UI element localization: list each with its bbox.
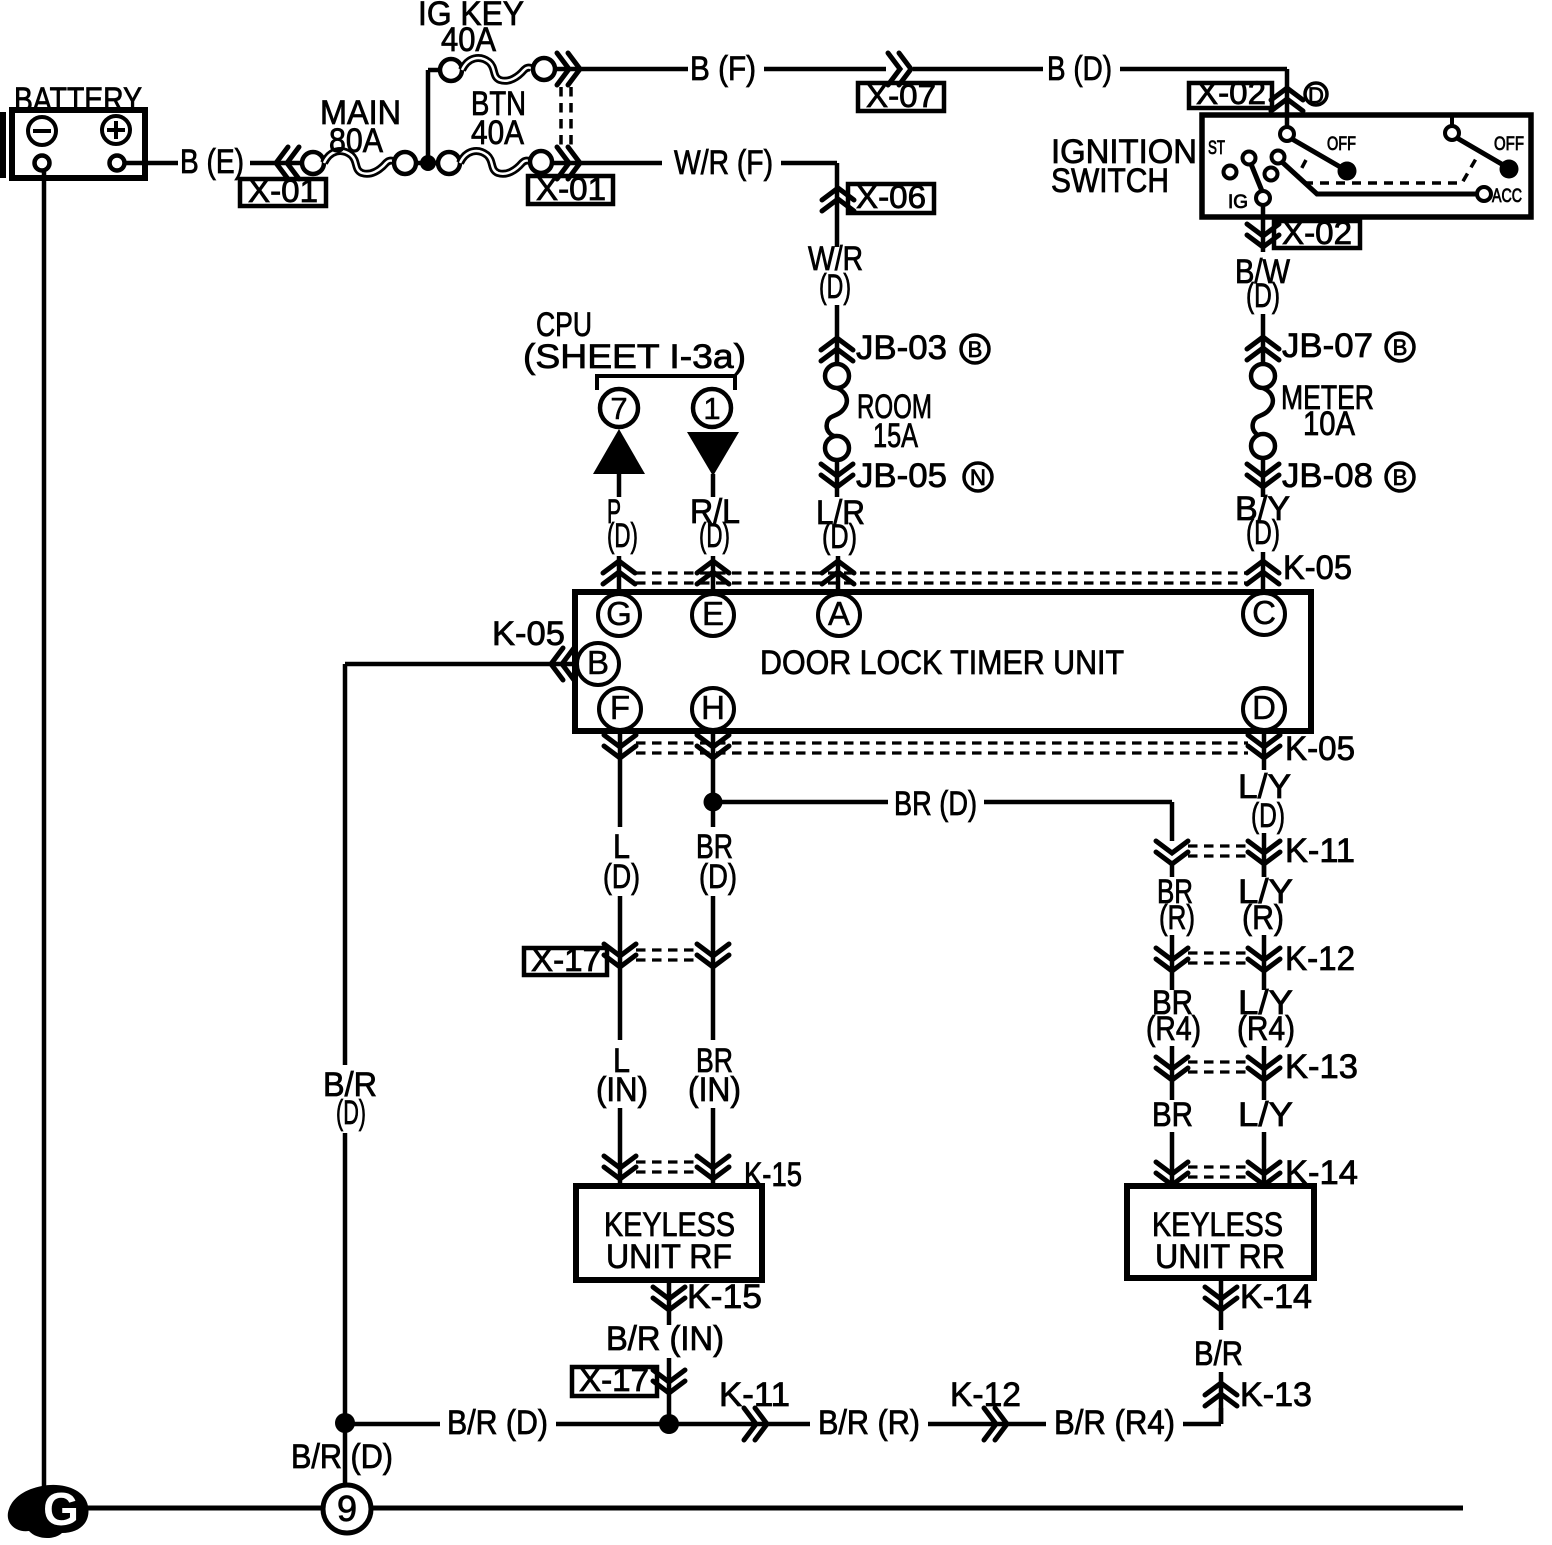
terminal D circled top xyxy=(1305,83,1327,105)
connector X-01 label box left xyxy=(240,179,326,206)
wire B/R(R4) to corner xyxy=(1183,1422,1221,1427)
svg-text:JB-03: JB-03 xyxy=(856,329,947,367)
ignition switch OFF contact left xyxy=(1338,162,1357,181)
fuse BTN 40A xyxy=(438,152,460,174)
ignition switch ACC contact b xyxy=(1265,168,1278,181)
svg-text:(D): (D) xyxy=(1246,514,1280,552)
svg-text:80A: 80A xyxy=(329,122,383,160)
connector K-05 chevron at B xyxy=(551,648,574,680)
ground G symbol xyxy=(8,1485,89,1538)
svg-text:X-02: X-02 xyxy=(1282,215,1352,251)
connector K-11 dashed link xyxy=(1188,844,1248,847)
wire L/Y(D) to K-11 xyxy=(1262,833,1267,877)
svg-text:(IN): (IN) xyxy=(596,1071,648,1109)
wire P(D) to terminal G xyxy=(617,556,622,594)
junction main/btn/igkey xyxy=(420,155,436,171)
ignition switch SW1 box xyxy=(1202,115,1531,217)
wire BR(D) branch right 2 xyxy=(984,800,1172,805)
wire BR(R4) xyxy=(1170,1046,1175,1100)
svg-text:DOOR LOCK TIMER UNIT: DOOR LOCK TIMER UNIT xyxy=(760,644,1124,682)
wire BR(R) xyxy=(1170,864,1175,877)
wire battery negative to ground xyxy=(42,170,47,1492)
wire B/R(IN) to X-17 xyxy=(667,1358,672,1424)
svg-text:SWITCH: SWITCH xyxy=(1051,162,1169,200)
connector K-14 chevron bottom xyxy=(1205,1287,1237,1310)
fuse METER 10A xyxy=(1251,364,1275,388)
svg-text:K-12: K-12 xyxy=(950,1376,1021,1414)
connector X-06 chevron xyxy=(822,188,854,211)
wire B/R(D) bottom left xyxy=(345,1422,440,1427)
connector X-17 label box xyxy=(524,948,607,975)
fuse IG KEY 40A xyxy=(440,59,462,81)
node 9 circle xyxy=(323,1485,371,1533)
wire IG KEY fuse to B(F) xyxy=(555,67,688,72)
junction X-17/K-11 xyxy=(659,1414,679,1434)
svg-text:X-07: X-07 xyxy=(866,78,936,114)
keyless unit RR box xyxy=(1127,1186,1314,1278)
connector K-05 chevron at C xyxy=(1247,561,1279,584)
svg-text:(R): (R) xyxy=(1242,899,1284,937)
connector K-11 chevron horizontal xyxy=(744,1408,767,1440)
ground rail xyxy=(60,1506,1463,1511)
terminal E xyxy=(692,594,734,636)
svg-text:ACC: ACC xyxy=(1492,186,1522,207)
wire B/W to JB-07 xyxy=(1261,314,1266,365)
svg-text:N: N xyxy=(970,465,986,490)
svg-text:B: B xyxy=(1393,465,1408,490)
wire terminal B to left rail xyxy=(345,662,577,667)
svg-text:B/R (R): B/R (R) xyxy=(818,1404,920,1442)
terminal B circled jb03 xyxy=(961,335,989,363)
connector K-13 chevron right wire xyxy=(1248,1057,1280,1080)
svg-text:40A: 40A xyxy=(471,114,524,152)
wire BR(D) to X-17 xyxy=(711,896,716,1040)
connector K-15 dashed link xyxy=(636,1160,700,1163)
wire B(F) to X-07 xyxy=(764,67,886,72)
svg-text:B/R (IN): B/R (IN) xyxy=(606,1320,724,1358)
svg-text:BR: BR xyxy=(1152,1096,1193,1134)
wire junction up to IG KEY fuse xyxy=(426,70,431,163)
svg-text:BATTERY: BATTERY xyxy=(14,81,142,119)
connector K-14 chevron left wire xyxy=(1156,1162,1188,1185)
connector JB-08 chevron xyxy=(1247,464,1279,487)
battery B1 xyxy=(12,110,145,178)
wire LY(R4) xyxy=(1262,1046,1267,1100)
svg-text:(D): (D) xyxy=(699,517,730,555)
svg-text:X-06: X-06 xyxy=(856,179,926,215)
wire ROOM to JB-05 xyxy=(835,460,840,497)
ignition switch dashed positions xyxy=(1297,157,1477,183)
connector K-15 chevron bottom xyxy=(653,1287,685,1310)
connector JB-07 chevron xyxy=(1247,337,1279,360)
svg-text:10A: 10A xyxy=(1303,405,1355,443)
connector X-02 chevron bottom xyxy=(1247,224,1279,247)
svg-text:B/R (D): B/R (D) xyxy=(291,1438,393,1476)
terminal B circled jb07 xyxy=(1386,333,1414,361)
scan edge artifact xyxy=(0,112,6,178)
wire BR(D) branch right xyxy=(722,800,888,805)
connector K-05 dashed link bottom xyxy=(636,741,1248,744)
svg-text:B (E): B (E) xyxy=(180,143,244,181)
svg-text:K-12: K-12 xyxy=(1285,940,1355,978)
svg-text:JB-05: JB-05 xyxy=(856,457,947,495)
svg-text:9: 9 xyxy=(337,1488,357,1529)
connector K-13 chevron left wire xyxy=(1156,1057,1188,1080)
connector X-01 dashed link xyxy=(559,87,563,148)
fuse MAIN 80A xyxy=(302,152,324,174)
wire pin1 to R/L(D) xyxy=(711,474,716,497)
ignition switch right stub xyxy=(1450,115,1454,127)
wire W/R(D) to JB-03 xyxy=(835,305,840,365)
connector X-01 chevron top right xyxy=(557,53,580,85)
wire RR down xyxy=(1219,1278,1224,1330)
connector K-14 chevron right wire xyxy=(1248,1162,1280,1185)
keyless unit RF box xyxy=(576,1186,762,1280)
svg-text:OFF: OFF xyxy=(1494,134,1524,155)
svg-text:L/Y: L/Y xyxy=(1238,1096,1293,1134)
svg-text:(D): (D) xyxy=(819,268,851,306)
svg-text:X-17: X-17 xyxy=(531,942,601,978)
connector K-12 chevron right wire xyxy=(1248,948,1280,971)
battery negative post xyxy=(35,156,50,171)
ignition switch arm right xyxy=(1457,138,1505,166)
svg-text:C: C xyxy=(1252,594,1276,631)
svg-text:(IN): (IN) xyxy=(688,1071,741,1109)
wire H down to junction xyxy=(711,731,716,802)
arrow down from CPU pin 1 xyxy=(687,432,739,476)
wire B/Y to terminal C xyxy=(1261,552,1266,594)
svg-text:(SHEET I-3a): (SHEET I-3a) xyxy=(523,338,746,376)
svg-text:K-05: K-05 xyxy=(1285,730,1355,768)
connector K-05 chevron at A xyxy=(822,561,854,584)
svg-text:(D): (D) xyxy=(603,858,640,896)
connector K-14 dashed link xyxy=(1188,1165,1248,1168)
wire junction down to node 9 xyxy=(343,1423,348,1487)
battery positive post xyxy=(110,156,125,171)
svg-text:A: A xyxy=(828,595,850,632)
connector X-02 label box bottom xyxy=(1274,221,1360,248)
wire B/R(R) to K-12 xyxy=(928,1422,1046,1427)
connector K-12 chevron horizontal xyxy=(984,1408,1007,1440)
ignition switch OFF contact right xyxy=(1500,160,1519,179)
svg-text:B (D): B (D) xyxy=(1047,50,1112,88)
wire pin7 to P(D) xyxy=(617,474,622,497)
arrow up to CPU pin 7 xyxy=(593,429,645,474)
terminal A xyxy=(818,594,860,636)
svg-text:X-01: X-01 xyxy=(248,173,318,209)
svg-text:G: G xyxy=(43,1483,79,1535)
svg-text:(R): (R) xyxy=(1159,899,1195,937)
wire B/R to K-13 xyxy=(1219,1372,1224,1424)
wire left rail B/R(D) upper xyxy=(343,664,348,1065)
svg-text:D: D xyxy=(1308,83,1324,108)
wire L(IN) to K-15 xyxy=(618,1108,623,1188)
connector K-05 chevron at F xyxy=(604,735,636,758)
wire B(D) to ignition switch xyxy=(1120,67,1287,72)
ignition switch ST contact a xyxy=(1243,152,1256,165)
svg-text:K-11: K-11 xyxy=(1285,832,1355,870)
svg-text:15A: 15A xyxy=(873,417,918,455)
terminal C xyxy=(1243,593,1285,635)
connector X-17 chevron bottom xyxy=(653,1370,685,1393)
wire MAIN to junction xyxy=(416,161,438,166)
svg-text:(D): (D) xyxy=(1246,277,1280,315)
connector X-01 label box right xyxy=(528,176,613,204)
terminal N circled jb05 xyxy=(964,463,992,491)
svg-text:(D): (D) xyxy=(1251,797,1285,835)
terminal G xyxy=(598,594,640,636)
svg-text:W/R (F): W/R (F) xyxy=(674,144,773,182)
connector X-17 chevron left xyxy=(604,944,636,967)
svg-text:UNIT RR: UNIT RR xyxy=(1155,1238,1285,1276)
connector X-07 label box xyxy=(858,83,944,111)
connector K-15 chevron left xyxy=(604,1156,636,1179)
connector X-01 chevron bottom right xyxy=(557,147,580,179)
svg-text:X-02: X-02 xyxy=(1196,75,1266,111)
wire BR(IN) to K-15 xyxy=(711,1108,716,1188)
wire B(E) to MAIN fuse xyxy=(250,161,304,166)
wire B/R(D) to junction xyxy=(556,1422,810,1427)
svg-text:B/R (D): B/R (D) xyxy=(447,1404,548,1442)
svg-text:(D): (D) xyxy=(607,517,638,555)
svg-text:ST: ST xyxy=(1208,138,1225,159)
wire left rail B/R(D) lower xyxy=(343,1133,348,1423)
connector X-17 chevron right xyxy=(697,944,729,967)
svg-text:(R4): (R4) xyxy=(1146,1010,1201,1048)
svg-text:K-14: K-14 xyxy=(1240,1278,1312,1316)
connector K-05 chevron at E xyxy=(697,561,729,584)
svg-text:UNIT RF: UNIT RF xyxy=(606,1238,732,1276)
connector JB-03 chevron xyxy=(821,338,853,361)
svg-text:(D): (D) xyxy=(699,858,737,896)
svg-text:D: D xyxy=(1252,689,1276,726)
terminal B xyxy=(577,643,619,685)
wire RF down xyxy=(667,1280,672,1325)
connector K-13 dashed link xyxy=(1188,1060,1248,1063)
wire X-07 to B(D) xyxy=(913,67,1043,72)
ignition switch ACC line xyxy=(1282,162,1477,194)
junction BR(D) xyxy=(704,793,723,812)
ignition switch ACC terminal xyxy=(1477,187,1491,201)
svg-text:F: F xyxy=(610,689,630,726)
svg-text:K-05: K-05 xyxy=(492,615,565,653)
svg-text:K-05: K-05 xyxy=(1283,549,1352,587)
connector X-02 chevron top xyxy=(1271,88,1303,111)
svg-text:B/R (R4): B/R (R4) xyxy=(1054,1404,1175,1442)
svg-text:IG: IG xyxy=(1228,192,1248,213)
svg-text:H: H xyxy=(701,689,725,726)
ignition switch right contact xyxy=(1445,126,1459,140)
svg-text:OFF: OFF xyxy=(1327,134,1356,155)
svg-text:G: G xyxy=(606,595,632,632)
wire H down 2 xyxy=(711,802,716,827)
door lock timer unit U1 box xyxy=(575,592,1311,731)
ignition switch battery contact xyxy=(1280,127,1294,141)
terminal D xyxy=(1243,688,1285,730)
connector X-06 label box xyxy=(848,184,934,213)
battery positive terminal symbol xyxy=(102,116,130,144)
svg-text:(D): (D) xyxy=(336,1094,366,1132)
wire L/R(D) to terminal A xyxy=(836,556,841,594)
ignition switch ACC contact a xyxy=(1272,151,1285,164)
wire METER to JB-08 xyxy=(1261,458,1266,497)
node 1 circle xyxy=(693,389,731,427)
connector K-15 chevron right xyxy=(697,1156,729,1179)
svg-text:B (F): B (F) xyxy=(690,50,756,88)
svg-text:B: B xyxy=(1393,335,1408,360)
svg-text:JB-07: JB-07 xyxy=(1282,327,1373,365)
fuse ROOM 15A xyxy=(825,364,849,388)
svg-text:K-13: K-13 xyxy=(1240,1376,1312,1414)
svg-text:JB-08: JB-08 xyxy=(1282,457,1373,495)
connector K-05 chevron at G xyxy=(603,561,635,584)
terminal B circled jb08 xyxy=(1386,463,1414,491)
terminal H xyxy=(692,688,734,730)
wire R/L(D) to terminal E xyxy=(711,556,716,594)
terminal F xyxy=(599,688,641,730)
node 7 circle xyxy=(600,389,638,427)
connector K-05 chevron at D xyxy=(1248,735,1280,758)
connector JB-05 chevron xyxy=(821,464,853,487)
ignition switch arm left xyxy=(1292,139,1342,168)
junction bottom left xyxy=(335,1413,355,1433)
connector K-05 chevron at H xyxy=(697,735,729,758)
wire BTN fuse to W/R(F) xyxy=(552,161,662,166)
connector X-07 chevron xyxy=(888,53,911,85)
ignition switch arm IG xyxy=(1251,164,1262,191)
connector K-13 chevron bottom xyxy=(1205,1383,1237,1406)
wire IG terminal down xyxy=(1261,204,1266,252)
ignition switch ST contact b xyxy=(1224,166,1237,179)
ignition switch IG contact xyxy=(1256,191,1270,205)
wire BR to K-14 xyxy=(1170,1132,1175,1188)
wire F down xyxy=(618,731,623,827)
svg-text:BR (D): BR (D) xyxy=(894,785,977,823)
svg-text:40A: 40A xyxy=(441,21,496,59)
connector K-11 chevron right wire xyxy=(1248,841,1280,864)
svg-text:7: 7 xyxy=(610,391,627,426)
battery negative terminal symbol xyxy=(28,117,56,145)
connector X-17 dashed link xyxy=(636,948,700,951)
wire battery positive to B(E) xyxy=(125,161,178,166)
wire W/R(F) to X-06 corner xyxy=(781,161,837,166)
svg-text:B: B xyxy=(587,644,609,681)
wire D down xyxy=(1262,731,1267,770)
connector K-12 chevron left wire xyxy=(1156,948,1188,971)
connector X-01 chevron left xyxy=(276,147,299,179)
connector X-17 label box bottom xyxy=(572,1367,657,1396)
connector K-05 dashed link top xyxy=(636,571,1248,574)
connector K-11 chevron left wire xyxy=(1156,841,1188,864)
svg-text:E: E xyxy=(702,595,724,632)
svg-text:K-15: K-15 xyxy=(687,1278,762,1316)
svg-text:K-13: K-13 xyxy=(1285,1048,1358,1086)
svg-text:B: B xyxy=(968,337,983,362)
wire LY to K-14 xyxy=(1262,1132,1267,1188)
wire L(D) to X-17 xyxy=(618,896,623,1040)
svg-text:X-01: X-01 xyxy=(536,171,606,207)
svg-text:1: 1 xyxy=(703,391,720,426)
connector K-12 dashed link xyxy=(1188,951,1248,954)
svg-text:(D): (D) xyxy=(822,518,857,556)
cpu bracket xyxy=(597,376,735,390)
svg-text:(R4): (R4) xyxy=(1237,1010,1295,1048)
svg-text:B/R: B/R xyxy=(1194,1335,1243,1373)
wire LY(R) xyxy=(1262,864,1267,877)
connector X-02 label box top xyxy=(1189,83,1272,108)
svg-text:X-17: X-17 xyxy=(579,1362,649,1398)
